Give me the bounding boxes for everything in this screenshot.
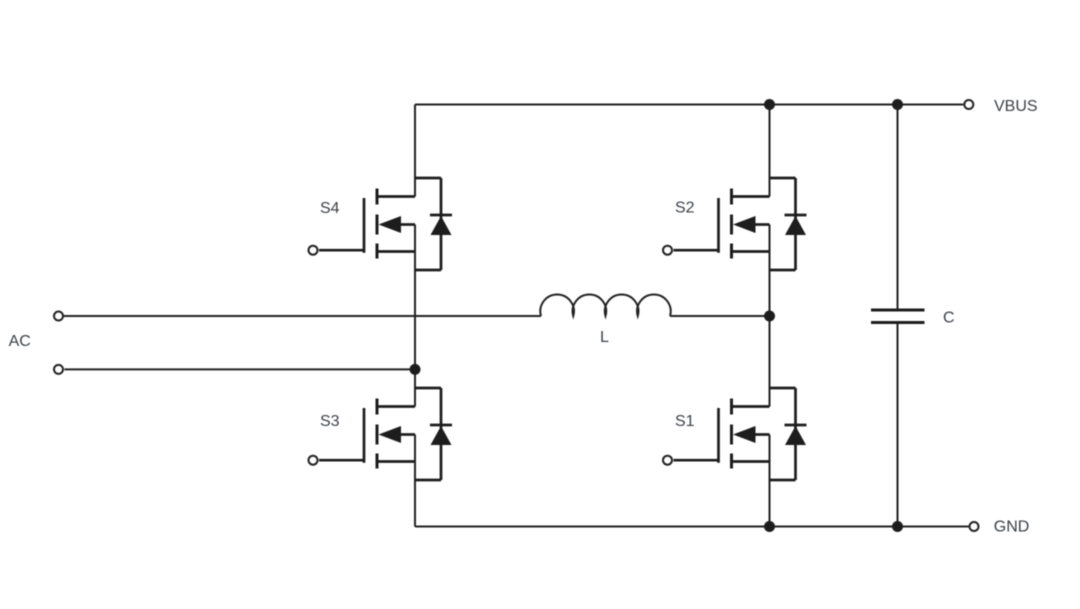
transistor S3 (MOSFET with body diode)	[309, 388, 453, 480]
wire AC line 2 to left column	[65, 368, 416, 370]
svg-text:S1: S1	[675, 413, 695, 430]
svg-text:L: L	[600, 329, 609, 346]
node junction top rail / right column	[764, 99, 775, 110]
svg-text:C: C	[943, 309, 955, 326]
terminal AC 2	[54, 365, 63, 374]
capacitor C	[871, 310, 925, 323]
transistor S2 (MOSFET with body diode)	[663, 178, 807, 270]
wire right column S2 drain stub	[769, 105, 771, 197]
transistor S4 (MOSFET with body diode)	[309, 178, 453, 270]
node junction bottom rail / capacitor	[892, 521, 903, 532]
svg-text:S3: S3	[320, 413, 340, 430]
node junction inductor / right column	[764, 311, 775, 322]
svg-text:AC: AC	[9, 333, 31, 350]
node junction bottom rail / right column	[764, 521, 775, 532]
svg-text:GND: GND	[994, 518, 1030, 535]
wire inductor to right column	[670, 315, 770, 317]
inductor L	[540, 294, 670, 316]
terminal AC 1	[54, 312, 63, 321]
wire left column S4 drain stub	[414, 105, 416, 197]
wire capacitor bottom branch	[897, 323, 899, 527]
svg-text:VBUS: VBUS	[994, 98, 1038, 115]
svg-text:S2: S2	[675, 199, 695, 216]
wire left column S3 source to bottom rail	[414, 435, 416, 527]
wire bottom rail GND	[415, 526, 969, 528]
node junction top rail / capacitor	[892, 99, 903, 110]
terminal GND	[970, 522, 979, 531]
wire top rail VBUS	[415, 104, 963, 106]
wire left column S4 source to S3 drain	[414, 225, 416, 407]
wire capacitor top branch	[897, 105, 899, 311]
wire right column S1 source to bottom rail	[769, 435, 771, 527]
wire AC line 1 to inductor	[64, 315, 541, 317]
terminal VBUS	[964, 100, 973, 109]
wire right column S2 source to S1 drain	[769, 225, 771, 407]
svg-text:S4: S4	[320, 200, 340, 217]
node junction AC line 2 / left column	[410, 364, 421, 375]
transistor S1 (MOSFET with body diode)	[663, 388, 807, 480]
